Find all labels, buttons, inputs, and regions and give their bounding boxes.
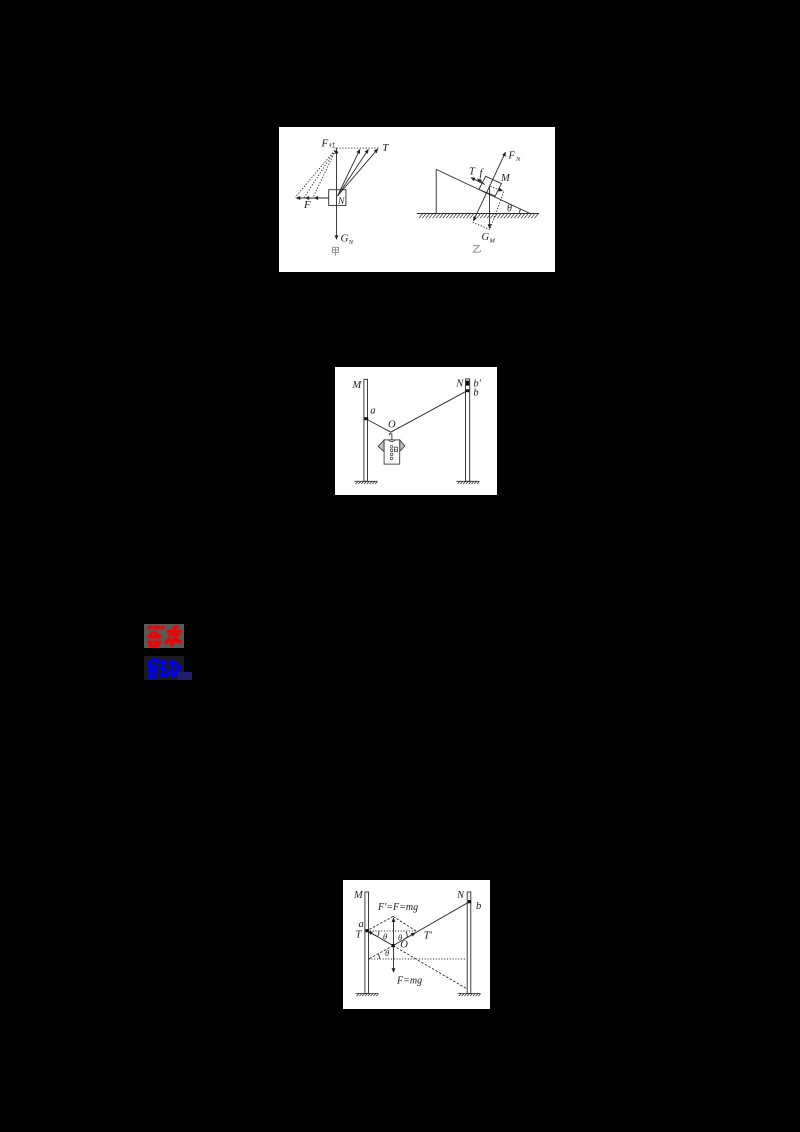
ground hatch right [458,993,481,996]
vertical force line F_la up / G_N down [336,150,338,240]
subscript 拉 blob [329,143,335,148]
figure box 2: clothesline between poles M and N [335,367,497,495]
F' resultant arrow up [393,918,395,946]
svg-text:T: T [382,142,389,154]
ground hatch right [456,481,479,484]
label 甲 [332,247,338,255]
horizontal F arrows (three magnitudes) [296,197,329,199]
svg-text:T′: T′ [424,931,433,942]
svg-text:M: M [352,380,363,391]
svg-text:G: G [482,232,490,243]
f arrow up-slope [478,179,485,185]
svg-text:M: M [500,173,511,184]
tension T lines (three directions) [338,149,360,196]
svg-text:a: a [359,919,364,930]
T arrow up-slope [471,178,484,184]
navy highlight block [178,672,192,680]
dashed mg sin component down-slope [490,186,502,191]
svg-text:θ: θ [385,948,389,958]
label 乙 [473,246,481,253]
svg-text:b: b [476,901,481,912]
T arrowhead toward a [368,932,376,936]
svg-text:G: G [341,233,349,245]
svg-text:N: N [348,239,354,246]
svg-text:F′=F=mg: F′=F=mg [377,902,418,913]
FIG1-RIGHT [417,152,539,229]
right pole N [467,892,471,993]
svg-text:θ: θ [507,204,512,215]
svg-text:θ: θ [398,932,402,942]
left pole M [365,892,369,993]
svg-text:N: N [455,378,464,389]
dashed extension of b-O beyond O [369,946,394,959]
point b [466,389,469,392]
svg-text:F: F [303,199,311,211]
dashed parallelogram top sides [367,916,417,931]
svg-text:N: N [515,156,521,163]
T' arrowhead toward b [403,933,415,940]
pocket [394,447,397,451]
svg-text:F: F [508,151,516,162]
svg-text:T: T [356,930,363,941]
dashed extension of a-O beyond O [393,946,467,989]
svg-text:θ: θ [383,931,387,941]
blue analysis label 解析 [144,656,184,680]
left pole M [364,379,368,481]
svg-text:M: M [353,890,364,901]
F weight arrow down [393,946,395,973]
normal line F_N up and mg cos component down [473,152,505,221]
svg-text:O: O [388,420,396,431]
collar [388,440,395,442]
point O [392,944,395,947]
buttons [390,446,393,460]
point a [366,929,369,932]
point b' [466,381,469,386]
red answer label 答案 [144,624,184,648]
svg-text:b: b [473,387,478,398]
T-shirt left sleeve [378,440,384,451]
ground hatch left [354,481,377,484]
svg-text:M: M [489,238,496,245]
ground line [417,213,539,215]
svg-text:N: N [456,890,465,901]
dotted horizontal through extension point [369,958,467,960]
svg-text:T: T [469,167,476,178]
T-shirt right sleeve [400,440,405,451]
dotted horizontal from apex to T tip [337,147,379,149]
dotted horizontal a to T' tip [367,930,417,932]
svg-text:N: N [337,197,345,207]
theta arc [520,209,521,214]
theta arcs [378,931,380,937]
ground hatch left [355,993,378,996]
point b [468,900,471,903]
T-shirt body [384,440,400,464]
svg-text:F=mg: F=mg [396,976,422,987]
G_M weight arrow [489,186,491,228]
block N [329,190,346,206]
dashed closing lines from apex to F tips [295,148,336,197]
svg-text:a: a [370,406,375,417]
incline triangle [436,169,530,213]
svg-text:F: F [321,138,329,150]
figure box 1: force-triangle diagram 甲 and incline diagram 乙 [279,127,555,272]
hanger hook [389,434,392,440]
svg-text:f: f [480,168,485,179]
figure box 3: force decomposition at O between poles [343,880,490,1009]
point a [364,417,368,420]
rope a-O-b [367,902,469,946]
ground hatching [419,214,538,218]
rope a-O-b [366,391,468,432]
right pole N [466,379,470,481]
dashed parallelogram sides [473,192,504,230]
block M on incline [479,176,502,196]
